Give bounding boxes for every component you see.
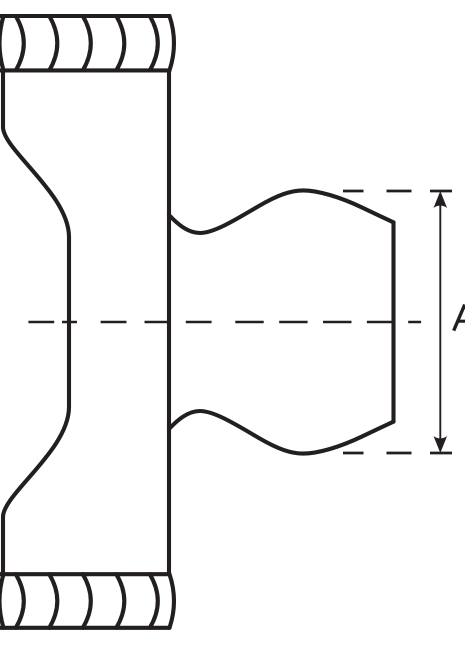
top bearing cap bottom line xyxy=(0,68,170,72)
top cap left end arc xyxy=(0,16,4,70)
body left edge lower vertical xyxy=(1,517,5,574)
bottom cap right end arc xyxy=(170,574,175,628)
bottom cap roller arc 2 xyxy=(49,574,57,628)
bottom extension line (dashed) xyxy=(343,452,452,455)
dimension arrow up xyxy=(434,191,448,208)
dimension label A xyxy=(454,305,465,331)
top cap roller arc 4 xyxy=(116,16,124,70)
body waist vertical xyxy=(67,237,71,407)
bottom cap roller arc 4 xyxy=(116,574,124,628)
knob flat right edge xyxy=(391,222,395,421)
knob lower profile curve xyxy=(169,411,394,454)
top cap roller arc 5 xyxy=(150,16,158,70)
top cap roller arc 1 xyxy=(16,16,24,70)
dimension line A xyxy=(439,205,441,439)
bottom bearing cap top line xyxy=(0,572,170,576)
bottom cap left end arc xyxy=(0,574,4,628)
top cap roller arc 3 xyxy=(83,16,91,70)
top extension line (dashed) xyxy=(343,190,452,193)
bottom bearing cap bottom line xyxy=(0,626,170,630)
body left edge upper S-curve xyxy=(3,127,69,237)
bottom cap roller arc 5 xyxy=(150,574,158,628)
top cap roller arc 2 xyxy=(49,16,57,70)
body right edge vertical xyxy=(167,70,171,574)
bottom cap roller arc 3 xyxy=(83,574,91,628)
horizontal centerline (dashed) xyxy=(28,321,421,324)
body left edge upper vertical xyxy=(1,70,5,127)
bottom cap roller arc 1 xyxy=(16,574,24,628)
dimension arrow down xyxy=(434,436,448,453)
top cap right end arc xyxy=(170,16,175,70)
knob upper profile curve xyxy=(169,190,394,233)
top bearing cap top line xyxy=(0,14,170,18)
body left edge lower S-curve xyxy=(3,407,69,517)
